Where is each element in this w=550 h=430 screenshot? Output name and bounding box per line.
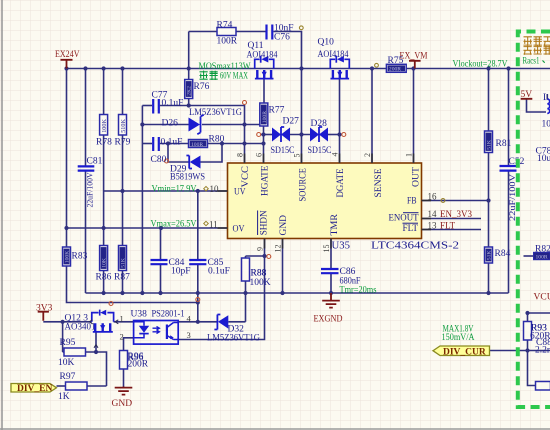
svg-text:LTC4364CMS-2: LTC4364CMS-2 — [371, 240, 459, 252]
note MOSmax113W — [199, 62, 251, 72]
wire R95 row left — [63, 351, 64, 353]
wire R95 row right / gate junction — [86, 352, 107, 386]
wire R78-R86 column middle — [103, 135, 105, 246]
svg-text:10pF: 10pF — [171, 267, 191, 277]
svg-text:R81: R81 — [496, 139, 512, 149]
transistor Q12 — [65, 310, 114, 333]
wire R93 bottom to DIV_CUR row — [527, 340, 529, 351]
svg-text:EN_3V3: EN_3V3 — [440, 209, 472, 219]
svg-text:10K: 10K — [102, 258, 108, 268]
U35 pin number 14 and net EN_3V3 — [428, 209, 473, 219]
wire R79-R87 column middle — [122, 135, 124, 246]
no-ERC markers (red circles) — [109, 101, 346, 306]
svg-text:Vlockout=28.7V: Vlockout=28.7V — [453, 60, 508, 70]
svg-text:1K: 1K — [58, 392, 70, 402]
note Tmr=20ms — [340, 286, 377, 296]
sheet border bottom — [0, 428, 550, 430]
pin-11 diamond marker — [204, 221, 209, 225]
U35 pin name SHDN (active low) — [258, 210, 269, 235]
svg-text:VCUR: VCUR — [534, 293, 550, 303]
power bar EX24V — [55, 50, 80, 69]
resistor R95 — [58, 338, 86, 368]
svg-text:PS2801-1: PS2801-1 — [152, 310, 185, 320]
U35 pin number 8 — [236, 153, 245, 157]
wire main 24V bus — [67, 68, 550, 70]
svg-text:GND: GND — [278, 214, 288, 235]
wire D29 loop right — [201, 144, 223, 163]
capacitor C85 — [189, 258, 230, 277]
U35 pin number 9 — [256, 247, 265, 251]
C88 labels (partial) — [535, 338, 550, 356]
svg-text:C81: C81 — [87, 157, 103, 167]
wire EN_3V3 row pin14 — [422, 218, 482, 220]
svg-text:SD15C: SD15C — [271, 146, 295, 156]
svg-text:SHDN: SHDN — [259, 210, 269, 235]
svg-text:0.1uF: 0.1uF — [161, 138, 183, 148]
resistor R97 — [58, 372, 87, 402]
port DIV_CUR — [433, 346, 490, 357]
wire R74 feed column / R76 column — [188, 32, 190, 80]
svg-text:R76: R76 — [194, 82, 210, 92]
wire R78 column top — [103, 69, 105, 115]
wire R74 row left — [189, 31, 217, 33]
svg-text:DGATE: DGATE — [335, 168, 345, 197]
wire col EX24V down-left branch — [66, 69, 68, 248]
wire C80 row to R80 — [160, 143, 189, 145]
U35 pin name ENOUT (overline on OUT) — [389, 213, 419, 223]
wire Q12 drain to opto pin1 — [114, 321, 134, 323]
U35 pin number 15 — [322, 245, 331, 253]
svg-text:13: 13 — [428, 221, 438, 231]
wire D28 row right stub — [328, 134, 342, 136]
svg-text:9: 9 — [256, 247, 265, 251]
pin-10 diamond marker — [204, 187, 209, 191]
svg-text:R84: R84 — [495, 249, 511, 259]
U35 pin name GND — [278, 214, 288, 235]
resistor R78 — [96, 115, 112, 148]
U35 pin number 2 — [363, 153, 372, 157]
svg-text:FLT: FLT — [403, 223, 419, 233]
svg-text:8: 8 — [236, 153, 245, 157]
wire C86 bottom to rail — [330, 274, 332, 294]
wire C77 row right / corner to D26 row — [160, 106, 245, 125]
wire TMR pin15 column top — [330, 239, 332, 269]
svg-text:R74: R74 — [217, 21, 233, 31]
svg-text:R88: R88 — [251, 269, 267, 279]
wire R84 bottom to rail — [488, 263, 490, 293]
svg-text:Q10: Q10 — [318, 38, 335, 48]
svg-text:11: 11 — [209, 220, 218, 230]
svg-text:LM5Z36VT1G: LM5Z36VT1G — [189, 108, 242, 118]
wire R74 row right to C76 — [236, 31, 266, 33]
wire R81-R84 column top — [488, 69, 490, 132]
wire R82 lead stub — [524, 255, 534, 257]
svg-text:SOURCE: SOURCE — [297, 168, 307, 202]
wire HGATE pin6 column — [263, 125, 265, 164]
resistor R80 — [189, 135, 225, 148]
svg-text:C76: C76 — [274, 33, 290, 43]
resistor R76 — [185, 80, 210, 99]
U38 pin numbers — [120, 314, 192, 342]
svg-text:Q11: Q11 — [248, 41, 264, 51]
note MAX1.8V — [443, 325, 474, 335]
U35 pin name OV — [233, 224, 245, 234]
wire OUT pin1 column — [413, 69, 415, 164]
svg-text:FLT: FLT — [440, 221, 456, 231]
svg-text:3: 3 — [187, 330, 191, 340]
svg-text:2K2: 2K2 — [187, 86, 193, 96]
svg-text:EXGND: EXGND — [314, 315, 343, 325]
U35 pin name VCC — [240, 166, 250, 188]
capacitor C76 — [267, 24, 294, 43]
note Chinese line2 — [524, 45, 550, 54]
U35 pin name HGATE — [259, 165, 269, 196]
wire R81 bottom to FB row to R84 — [488, 153, 490, 248]
wire GND pin12 column — [282, 239, 284, 294]
svg-text:AO3401: AO3401 — [65, 323, 96, 333]
wire C85 column top from UV row — [197, 191, 199, 260]
optocoupler U38 PS2801-1 — [131, 310, 185, 345]
svg-text:U35: U35 — [332, 240, 351, 252]
transistor Q11 — [247, 41, 278, 79]
svg-text:MOSmax113W: MOSmax113W — [199, 62, 251, 72]
C78 labels (partial) — [536, 147, 550, 165]
wire inductor top stub — [546, 94, 548, 99]
svg-text:10u: 10u — [537, 154, 550, 164]
wire 3V3 row to Q12 — [43, 321, 92, 323]
wire R88 elbow row — [246, 255, 265, 257]
svg-text:22uF/100V: 22uF/100V — [85, 172, 95, 208]
U35 pin number 6 — [255, 153, 264, 157]
svg-text:SD15C: SD15C — [308, 146, 332, 156]
wire C81 column top — [85, 69, 87, 167]
note Vmin — [152, 185, 197, 195]
wire DIV_CUR row — [490, 350, 550, 352]
svg-text:EX24V: EX24V — [55, 50, 80, 60]
wire D27 row left — [261, 134, 273, 136]
wire C77 row — [142, 105, 152, 107]
svg-text:150mV/A: 150mV/A — [442, 333, 475, 343]
wire C81 column bottom to rail — [85, 171, 87, 294]
wire SENSE pin2 column — [371, 69, 373, 164]
Q12 pin end arrows — [89, 320, 118, 348]
R96 labels — [128, 352, 149, 370]
R93 labels — [530, 324, 550, 342]
schottky diode D29 B5819WS — [170, 156, 205, 183]
wire Q12 gate column — [95, 331, 97, 352]
wire R79 column top — [122, 69, 124, 115]
svg-text:C80: C80 — [151, 155, 167, 165]
svg-text:AOI4184: AOI4184 — [247, 51, 278, 61]
capacitor C80 — [151, 137, 183, 165]
power bar 5V — [521, 90, 533, 100]
U35 pin number 4 — [331, 153, 340, 157]
op-amp controller U35 LTC4364CMS-2 body — [228, 163, 422, 239]
svg-text:GND: GND — [112, 399, 133, 409]
svg-text:51K: 51K — [487, 140, 493, 150]
svg-text:100R: 100R — [217, 37, 238, 47]
svg-text:0.1uF: 0.1uF — [208, 267, 230, 277]
wire R76 bottom to C77 row — [188, 99, 190, 106]
wire C80 row left — [142, 143, 152, 145]
inductor L (partial) — [542, 93, 550, 130]
svg-text:14: 14 — [428, 209, 438, 219]
svg-text:3V3: 3V3 — [36, 304, 53, 314]
resistor R93 — [524, 322, 548, 341]
svg-text:100K: 100K — [250, 278, 271, 288]
svg-text:R80: R80 — [209, 135, 225, 145]
wire bracket column C77-C80 to rail — [141, 106, 143, 294]
svg-text:SENSE: SENSE — [373, 168, 383, 198]
svg-text:D28: D28 — [311, 119, 328, 129]
note Vlockout — [453, 60, 508, 70]
wire DIV_EN port to R97 — [57, 385, 66, 387]
svg-text:R75: R75 — [388, 56, 404, 66]
wire R80 row right — [208, 143, 264, 145]
wire Q10 gate tail DGATE column — [339, 80, 341, 164]
wire OV row pin11 — [67, 227, 228, 229]
svg-text:200R: 200R — [128, 360, 149, 370]
wire VCUR column to R93 — [527, 313, 529, 322]
U35 right pin stubs 16,14,13 — [422, 201, 432, 230]
resistor R88 — [242, 258, 267, 281]
svg-text:100R: 100R — [262, 111, 268, 123]
wire C84 column bottom to rail — [160, 264, 162, 293]
capacitor C84 — [151, 258, 191, 277]
wire VCUR row right edge — [528, 312, 550, 314]
wire D27-D28 row middle — [290, 134, 310, 136]
note 150mV/A — [442, 333, 475, 343]
capacitor C81 — [78, 157, 103, 208]
resistor R84 — [485, 247, 511, 263]
wire R86 bottom to rail — [103, 271, 105, 294]
TVS diode D28 SD15C — [308, 119, 332, 156]
svg-text:60V MAX: 60V MAX — [220, 72, 248, 82]
power bar EX_VM — [400, 52, 428, 69]
ground GND — [112, 387, 133, 410]
svg-text:ENOUT: ENOUT — [389, 213, 419, 223]
svg-text:200R: 200R — [389, 67, 401, 73]
resistor R94 partial at right edge — [536, 382, 550, 391]
wire 5V wire to inductor — [527, 100, 547, 113]
power bar 3V3 — [36, 304, 53, 321]
svg-text:2: 2 — [120, 332, 124, 342]
wire D32 row from opto junction — [198, 321, 217, 323]
U35 pin number 12 — [274, 245, 283, 253]
svg-text:D26: D26 — [162, 119, 179, 129]
resistor R77 — [260, 103, 285, 126]
svg-text:Tmr=20ms: Tmr=20ms — [340, 286, 377, 296]
U35 top pin stubs 8,6,5,4,2,1 — [245, 154, 414, 164]
wire D26 row right — [202, 124, 264, 126]
svg-text:1: 1 — [405, 153, 414, 157]
svg-text:EX_VM: EX_VM — [400, 52, 428, 62]
svg-text:R78: R78 — [96, 138, 112, 148]
U35 pin number 1 — [405, 153, 414, 157]
wire C52 column top — [508, 69, 510, 167]
resistor R81 — [485, 131, 512, 153]
wire R97 row right — [87, 385, 107, 387]
green dashed region border — [518, 32, 550, 408]
resistor R86 — [96, 246, 112, 283]
svg-text:R77: R77 — [269, 106, 285, 116]
U35 pin name SENSE — [373, 168, 383, 198]
note reverse 60V MAX — [200, 71, 249, 82]
svg-text:100R: 100R — [191, 142, 203, 148]
wire R88 column — [245, 256, 247, 258]
resistor R87 — [114, 246, 130, 283]
wire R83 bottom to opto riser row — [67, 266, 198, 303]
svg-text:5V: 5V — [521, 90, 533, 100]
svg-text:DIV_EN: DIV_EN — [17, 384, 53, 394]
U35 part number — [371, 240, 459, 252]
svg-text:R86: R86 — [96, 273, 112, 283]
svg-text:LM5Z36VT1G: LM5Z36VT1G — [207, 334, 260, 344]
wire D26 row left — [142, 124, 188, 126]
U35 pin number 5 — [293, 154, 302, 158]
wire EXGND rail — [86, 292, 509, 294]
svg-text:100: 100 — [542, 120, 550, 130]
svg-text:10K: 10K — [58, 358, 75, 368]
svg-text:R79: R79 — [115, 138, 131, 148]
U35 pin name FLT (overline) — [403, 223, 419, 233]
svg-text:DIV_CUR: DIV_CUR — [443, 347, 486, 357]
wire opto pin4 row — [178, 321, 198, 323]
wire FB row pin16 — [422, 200, 489, 202]
U35 pin number 11 — [209, 220, 218, 230]
svg-text:B5819WS: B5819WS — [170, 173, 205, 183]
svg-text:U38: U38 — [131, 310, 148, 320]
svg-text:L: L — [543, 93, 549, 103]
wire DIV_CUR column down — [528, 351, 536, 386]
svg-text:TMR: TMR — [329, 214, 339, 236]
svg-text:R95: R95 — [60, 338, 76, 348]
transistor Q10 — [318, 38, 350, 79]
U35 pin name DGATE — [335, 168, 345, 197]
sheet border left — [1, 0, 3, 430]
U35 pin number 16 — [428, 192, 438, 202]
resistor R74 — [217, 21, 238, 47]
note Chinese line1 (output power) — [524, 36, 550, 46]
svg-text:AOI4184: AOI4184 — [318, 50, 349, 60]
svg-text:51K: 51K — [121, 258, 127, 268]
compile markers (khaki circles) — [299, 26, 445, 203]
svg-text:2: 2 — [363, 153, 372, 157]
wire opto pin2 row to R96 — [124, 338, 134, 351]
wire R87 bottom to rail — [122, 271, 124, 294]
wire UV row pin10 — [104, 190, 228, 192]
svg-text:100R: 100R — [536, 254, 548, 260]
svg-text:100K: 100K — [65, 251, 71, 263]
wire D29 loop left — [168, 144, 189, 163]
svg-text:OV: OV — [233, 224, 245, 234]
svg-text:6: 6 — [255, 153, 264, 157]
svg-text:FB: FB — [407, 196, 417, 206]
wire D32 anode lead — [228, 321, 245, 323]
svg-text:VCC: VCC — [240, 166, 250, 188]
svg-text:1: 1 — [120, 314, 124, 324]
wire R96 bottom to GND — [123, 369, 125, 387]
svg-text:Vmax=26.5V: Vmax=26.5V — [151, 220, 197, 230]
svg-text:12: 12 — [274, 245, 283, 253]
wire C84 column top — [160, 228, 162, 260]
svg-text:16: 16 — [428, 192, 438, 202]
capacitor C77 — [152, 91, 184, 114]
U35 pin name OUT — [411, 166, 421, 187]
svg-text:C86: C86 — [340, 267, 356, 277]
svg-text:2.2n: 2.2n — [535, 346, 550, 356]
svg-text:10: 10 — [210, 184, 220, 194]
U35 pin name UV — [234, 187, 246, 197]
svg-text:15: 15 — [322, 245, 331, 253]
ground EXGND — [314, 293, 343, 325]
wire FLT row pin13 — [422, 229, 482, 231]
net label VCUR (partial) — [534, 293, 550, 303]
U35 bottom pin stubs 9,12,15 — [265, 239, 332, 249]
svg-text:Vmin=17.9V: Vmin=17.9V — [152, 185, 197, 195]
capacitor C52 — [500, 157, 525, 221]
resistor R79 — [115, 115, 131, 148]
wire C52 column bottom to rail corner — [508, 171, 510, 293]
capacitor C86 — [321, 267, 361, 287]
wire D32 riser to rail — [245, 293, 247, 322]
U35 designator — [332, 240, 351, 252]
svg-text:HGATE: HGATE — [259, 165, 269, 196]
svg-text:Racs1: Racs1 — [523, 56, 540, 66]
note Vmax — [151, 220, 197, 230]
wire C85 column bottom / opto riser — [197, 264, 199, 322]
U35 left pin stubs 10,11 — [218, 191, 228, 228]
resistor R83 — [63, 247, 88, 266]
svg-text:510K: 510K — [120, 119, 127, 133]
port DIV_EN — [11, 384, 57, 395]
wire R95 branch column — [62, 322, 64, 352]
svg-text:4: 4 — [331, 153, 340, 157]
svg-text:D27: D27 — [283, 117, 300, 127]
U35 pin name TMR — [329, 214, 339, 236]
U35 pin name SOURCE — [297, 168, 307, 202]
svg-text:100K: 100K — [101, 119, 108, 133]
svg-text:51K: 51K — [487, 251, 493, 261]
svg-text:22uF/100V: 22uF/100V — [507, 173, 517, 221]
svg-text:0.1uF: 0.1uF — [162, 99, 184, 109]
resistor R82 labels and value box right edge — [534, 245, 550, 261]
R88 labels — [250, 269, 271, 289]
svg-text:R97: R97 — [60, 372, 76, 382]
zener diode D26 LM5Z36VT1G — [162, 108, 243, 134]
svg-text:OUT: OUT — [411, 166, 421, 187]
svg-text:R83: R83 — [72, 252, 88, 262]
U35 pin name FB — [407, 196, 417, 206]
zener diode D32 LM5Z36VT1G — [207, 315, 260, 344]
wire Q11 gate tail to R77 — [263, 80, 265, 104]
note Racs1 — [523, 56, 545, 66]
U35 pin number 13 and net FLT — [428, 221, 456, 231]
U35 pin number 10 — [210, 184, 220, 194]
wire R88 bottom to rail — [245, 281, 247, 293]
wire VCC pin8 column — [244, 125, 246, 164]
svg-text:R87: R87 — [114, 273, 130, 283]
wire SHDN pin9 column to opto pin3 row — [178, 239, 264, 340]
wire C76 right to SOURCE column — [274, 32, 302, 164]
resistor R75 — [386, 56, 406, 73]
resistor R96 — [120, 351, 144, 370]
TVS diode D27 SD15C — [271, 117, 300, 157]
